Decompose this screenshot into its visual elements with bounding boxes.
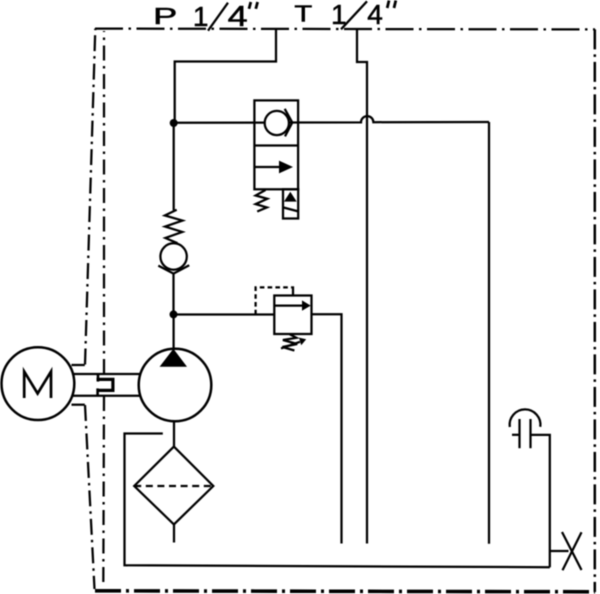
relief valve RV flow arrow xyxy=(275,304,303,306)
wire: node B down to pump outlet xyxy=(172,314,174,349)
return header inside tank xyxy=(125,434,550,568)
breather B1 left tick xyxy=(512,434,520,436)
check valve V2 seat xyxy=(158,265,189,273)
breather B1 left prong xyxy=(518,419,520,448)
coupling tooth upper (motor side) xyxy=(97,374,100,382)
wire: pump suction down to filter F1 xyxy=(173,421,175,446)
valve V1 position divider xyxy=(254,144,298,146)
relief valve RV adjustment arrow xyxy=(281,342,300,349)
pump P1 housing xyxy=(139,349,212,422)
wire: check valve V1 outlet with hop over T line, to right drop xyxy=(289,116,489,122)
node A junction dot xyxy=(170,119,178,127)
relief valve RV adjustable spring xyxy=(282,334,297,350)
port P pipe: drop from boundary, elbow left, down to node A xyxy=(175,29,276,123)
svg-text:T: T xyxy=(294,1,312,27)
enclosure boundary bottom edge xyxy=(95,591,595,592)
coupling tooth lower (motor side) xyxy=(96,388,99,395)
valve V1 solenoid S1 xyxy=(283,189,298,218)
svg-text:1: 1 xyxy=(193,1,209,32)
pump P1 outlet triangle xyxy=(160,349,187,367)
relief valve RV body xyxy=(274,296,311,335)
shaft upper line xyxy=(73,373,140,375)
wire: node B to relief valve RV inlet xyxy=(174,313,275,315)
breather B1 outlet to tank drop xyxy=(531,435,550,567)
enclosure boundary left outer edge lower run xyxy=(85,405,95,589)
motor M1 boundary tie lower xyxy=(72,404,85,406)
wire: relief valve outlet to tank drop xyxy=(312,314,342,543)
filter F1 element (dashed) xyxy=(134,485,213,487)
svg-text:1: 1 xyxy=(331,0,347,30)
valve V1 return spring xyxy=(256,190,268,212)
relief valve RV pilot stub into body xyxy=(292,286,294,296)
breather B1 right prong xyxy=(529,419,531,448)
valve V1 open-flow arrow xyxy=(255,166,281,168)
shaft lower line xyxy=(73,395,140,397)
port T pipe: drop from boundary, jog right, long drop into tank xyxy=(357,30,367,544)
svg-text:4: 4 xyxy=(367,0,383,30)
check valve V2 poppet ball xyxy=(160,243,186,269)
label port P slash xyxy=(208,3,228,31)
enclosure boundary left outer edge upper run xyxy=(85,29,95,365)
svg-text:4: 4 xyxy=(228,0,248,32)
wire: node A to check valve V1 inlet xyxy=(174,121,265,123)
label port P inch marks xyxy=(249,2,251,9)
enclosure boundary right edge xyxy=(594,29,597,592)
label port T slash xyxy=(341,1,367,29)
tank boundary left inner edge upper run xyxy=(103,31,105,374)
drain valve DV cross stroke 2 xyxy=(563,532,582,570)
motor M1 housing xyxy=(2,347,75,420)
filter F1 body xyxy=(134,447,213,525)
motor M1 boundary tie upper xyxy=(72,364,85,366)
filter F1 suction stub xyxy=(173,524,175,542)
wire: node A down to spring of V2 xyxy=(173,123,175,210)
breather B1 cap arc xyxy=(510,409,541,427)
wire: right return drop into tank xyxy=(488,122,490,544)
check valve V2 spring xyxy=(165,210,183,244)
relief valve RV pilot line (dashed) xyxy=(256,287,292,314)
valve V1 check poppet ball xyxy=(265,111,289,135)
coupling claw (tank side) xyxy=(97,379,113,390)
label port T inch marks xyxy=(387,0,389,8)
valve V1 check seat xyxy=(285,109,293,137)
node B junction dot xyxy=(170,310,178,318)
drain valve DV cross stroke 1 xyxy=(562,532,582,570)
tank boundary left inner edge lower run xyxy=(102,396,105,586)
svg-text:P: P xyxy=(153,4,177,29)
drain valve DV stub xyxy=(550,550,569,552)
enclosure boundary top edge xyxy=(95,27,595,30)
wire: V2 seat down to node B xyxy=(172,273,174,314)
motor M1 letter xyxy=(24,372,51,399)
valve V1 envelope (2-position cartridge valve) xyxy=(254,100,298,189)
